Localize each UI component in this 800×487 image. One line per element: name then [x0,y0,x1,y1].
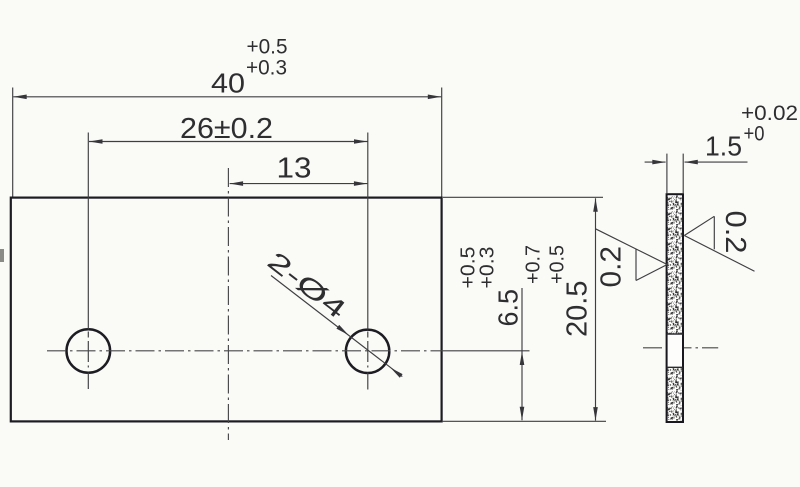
svg-text:+0: +0 [744,123,765,146]
svg-text:0.2: 0.2 [719,211,751,254]
svg-text:+0.3: +0.3 [246,57,287,80]
svg-text:+0.5: +0.5 [547,245,569,284]
svg-text:1.5: 1.5 [705,131,742,162]
svg-text:26±0.2: 26±0.2 [180,113,273,145]
svg-text:+0.3: +0.3 [477,247,499,289]
svg-text:0.2: 0.2 [596,246,628,288]
svg-text:+0.02: +0.02 [741,102,798,125]
svg-text:+0.5: +0.5 [247,36,288,59]
svg-text:13: 13 [277,153,312,185]
svg-text:+0.7: +0.7 [523,245,545,284]
svg-text:6.5: 6.5 [493,289,524,327]
svg-text:40: 40 [211,68,245,99]
svg-text:20.5: 20.5 [562,281,594,338]
